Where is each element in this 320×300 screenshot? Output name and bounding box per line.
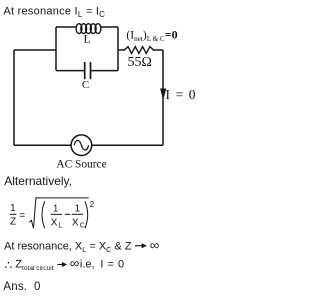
svg-text:X: X bbox=[51, 217, 58, 228]
radical sign bbox=[29, 198, 88, 228]
svg-text:C: C bbox=[80, 222, 85, 229]
svg-text:=: = bbox=[19, 211, 25, 222]
svg-text:1: 1 bbox=[53, 203, 59, 214]
svg-text:L: L bbox=[59, 222, 63, 229]
formula: 1/Z = sqrt((1/XL - 1/XC)^2) bbox=[10, 198, 95, 230]
capacitor plate left bbox=[84, 62, 86, 79]
wire: bottom right segment bbox=[92, 144, 163, 146]
svg-text:∞: ∞ bbox=[70, 255, 79, 270]
wire: bottom branch left bbox=[56, 70, 84, 72]
open paren bbox=[42, 201, 45, 228]
svg-text:AC Source: AC Source bbox=[56, 159, 106, 171]
wire: top branch left bbox=[56, 26, 77, 28]
arrow: Z total tends to bbox=[57, 264, 64, 266]
svg-text:∞: ∞ bbox=[150, 237, 159, 252]
svg-text:(Inet)L & C=0: (Inet)L & C=0 bbox=[126, 28, 177, 44]
LC block left edge bbox=[55, 27, 57, 71]
capacitor plate right bbox=[90, 62, 92, 79]
wire: left horizontal feed bbox=[14, 49, 56, 51]
arrow: Z tends to bbox=[135, 245, 144, 247]
svg-text:1: 1 bbox=[75, 203, 81, 214]
wire: bottom left segment bbox=[14, 144, 71, 146]
svg-text:L: L bbox=[84, 34, 91, 46]
svg-text:1: 1 bbox=[10, 203, 16, 214]
minus sign bbox=[65, 213, 70, 215]
svg-text:i.e, I = 0: i.e, I = 0 bbox=[80, 258, 124, 270]
close paren bbox=[85, 201, 88, 228]
svg-text:2: 2 bbox=[90, 200, 95, 209]
arrow: current direction I bbox=[160, 89, 166, 101]
svg-text:55Ω: 55Ω bbox=[128, 55, 152, 70]
svg-text:Alternatively,: Alternatively, bbox=[4, 174, 72, 188]
wire: bottom branch right bbox=[91, 70, 118, 72]
wire: top branch right bbox=[100, 26, 118, 28]
wire: left vertical bbox=[13, 50, 15, 145]
svg-text:At resonance, XL = XC & Z: At resonance, XL = XC & Z bbox=[4, 240, 132, 253]
LC block right edge bbox=[117, 27, 119, 71]
AC source circle bbox=[71, 135, 92, 156]
AC source sine wave bbox=[74, 140, 88, 150]
svg-text:X: X bbox=[72, 217, 79, 228]
svg-text:I = 0: I = 0 bbox=[166, 87, 196, 102]
svg-text:∴ Ztotal circuit: ∴ Ztotal circuit bbox=[5, 258, 54, 272]
resistor R 55ohm zigzag bbox=[118, 47, 163, 54]
svg-text:At resonance IL = IC: At resonance IL = IC bbox=[3, 6, 105, 19]
svg-text:C: C bbox=[82, 79, 89, 91]
svg-text:Ans. 0: Ans. 0 bbox=[3, 281, 40, 293]
svg-text:Z: Z bbox=[10, 217, 16, 228]
wire: right vertical bbox=[162, 50, 164, 145]
inductor L coil bbox=[76, 24, 101, 34]
